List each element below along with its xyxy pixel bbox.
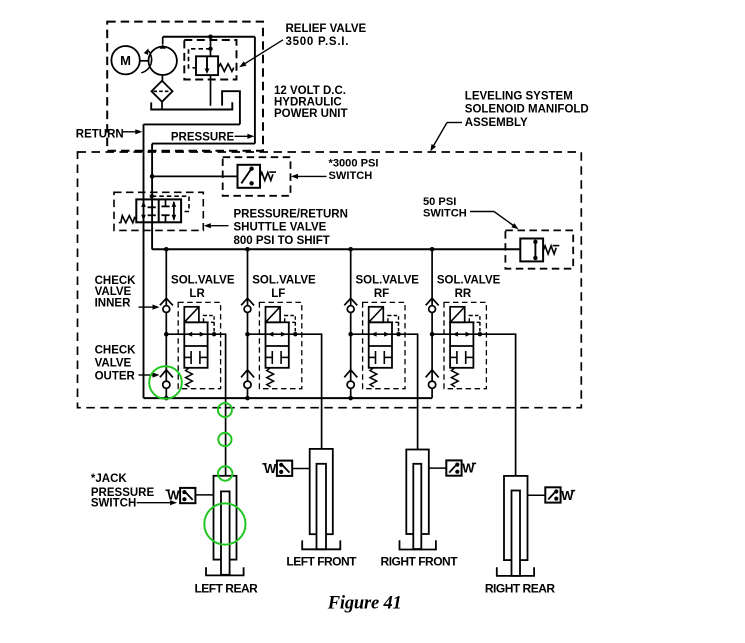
check valve outer RF	[344, 370, 357, 389]
shuttle valve body	[136, 199, 181, 222]
svg-text:12 VOLT D.C.: 12 VOLT D.C.	[274, 85, 346, 97]
cylinder RIGHT REAR	[497, 476, 534, 576]
valve RF flow arrows	[371, 332, 390, 337]
valve LF spring	[267, 368, 274, 387]
relief valve spring	[218, 64, 234, 72]
svg-text:M: M	[120, 53, 131, 68]
solenoid valve RR dashed enclosure	[444, 302, 486, 388]
label 12 VOLT D.C. HYDRAULIC POWER UNIT	[274, 85, 347, 120]
svg-text:SOL.VALVE: SOL.VALVE	[437, 274, 501, 286]
wire feed down LR	[165, 249, 167, 398]
valve LR spring	[186, 368, 193, 387]
leader shuttle valve	[204, 223, 229, 228]
node LR valve inlet	[164, 332, 169, 337]
svg-text:RIGHT REAR: RIGHT REAR	[485, 582, 556, 596]
pilot box RF	[388, 316, 401, 337]
wire pump to filter	[161, 75, 163, 81]
leveling system manifold dashed enclosure	[78, 152, 582, 408]
label SOL.VALVE LR	[171, 274, 235, 300]
node return rail LR	[164, 396, 169, 401]
valve RR flow arrows	[453, 332, 472, 337]
svg-text:LEFT REAR: LEFT REAR	[194, 581, 258, 595]
leader manifold label	[430, 123, 462, 152]
3000 psi switch dashed enclosure	[223, 157, 291, 196]
relief valve body	[196, 56, 218, 75]
wire feed down RF	[350, 249, 352, 398]
leader check valve outer	[139, 372, 160, 377]
solenoid valve LR dashed enclosure	[178, 302, 220, 388]
3000 psi switch spring	[260, 172, 273, 180]
pilot box RR	[469, 316, 482, 337]
wire LR valve to cylinder	[166, 334, 225, 476]
svg-text:LR: LR	[189, 288, 205, 300]
label CHECK VALVE OUTER	[95, 344, 137, 382]
svg-text:POWER UNIT: POWER UNIT	[274, 108, 347, 120]
cylinder RIGHT FRONT	[400, 450, 436, 550]
motor M	[111, 46, 139, 74]
svg-text:RIGHT FRONT: RIGHT FRONT	[381, 554, 459, 568]
check valve outer RR	[426, 370, 439, 389]
hydraulic power unit dashed enclosure	[107, 22, 263, 151]
cylinder LEFT FRONT	[302, 449, 340, 549]
wire relief drain to tank	[210, 37, 212, 57]
valve LF flow arrows	[268, 332, 287, 337]
jack pressure switch at RIGHT REAR	[528, 487, 576, 503]
svg-text:RETURN: RETURN	[76, 128, 124, 140]
valve RR blocked ports	[450, 351, 473, 364]
svg-text:LEFT FRONT: LEFT FRONT	[286, 555, 357, 569]
wire RR valve to cylinder	[432, 334, 515, 476]
relief valve RV dashed enclosure	[184, 40, 236, 80]
svg-text:SOL.VALVE: SOL.VALVE	[171, 274, 235, 286]
suction filter	[152, 81, 173, 102]
label *JACK PRESSURE SWITCH	[91, 473, 155, 510]
valve body LF	[266, 322, 289, 368]
solenoid valve RF dashed enclosure	[363, 302, 405, 388]
svg-text:SWITCH: SWITCH	[91, 498, 136, 510]
shuttle valve left cell flow arrows	[141, 201, 156, 221]
label RELIEF VALVE 3500 P.S.I.	[286, 23, 367, 48]
svg-text:RR: RR	[455, 288, 472, 300]
label 50 PSI SWITCH	[423, 196, 467, 220]
jack pressure switch at LEFT REAR	[166, 488, 214, 504]
check valve outer LF	[241, 370, 254, 389]
shuttle valve spring	[119, 216, 137, 223]
svg-text:VALVE: VALVE	[95, 286, 132, 298]
leader pressure arrow	[235, 134, 255, 139]
valve LF blocked ports	[266, 351, 289, 364]
annotation green circle cylinder body	[204, 503, 245, 544]
node RR valve inlet	[430, 332, 435, 337]
svg-text:*JACK: *JACK	[91, 473, 127, 485]
solenoid valve LF dashed enclosure	[259, 302, 301, 388]
wire pressure horizontal	[152, 143, 255, 145]
wire pressure down right side	[254, 37, 256, 144]
solenoid coil LF	[266, 307, 281, 323]
valve LR flow arrows	[187, 332, 206, 337]
return dip pipe into tank	[222, 91, 240, 124]
shuttle valve right cell flow arrows	[161, 199, 176, 222]
wire motor to pump	[140, 60, 149, 62]
relief valve pilot line	[189, 47, 213, 68]
wire return drop into manifold	[143, 124, 145, 398]
leader jack pressure switch	[137, 500, 177, 505]
svg-text:HYDRAULIC: HYDRAULIC	[274, 97, 342, 109]
leader 50 psi switch	[470, 212, 519, 230]
pump	[149, 44, 177, 75]
reservoir tank	[151, 102, 232, 109]
check valve inner RR	[426, 298, 439, 312]
svg-text:LEVELING SYSTEM: LEVELING SYSTEM	[465, 90, 573, 102]
node return rail LF	[245, 396, 250, 401]
valve RF spring	[370, 368, 377, 387]
svg-text:LF: LF	[271, 288, 285, 300]
svg-text:50 PSI: 50 PSI	[423, 196, 456, 208]
annotation green circle LR outer check valve	[149, 366, 182, 399]
svg-text:800 PSI TO SHIFT: 800 PSI TO SHIFT	[234, 235, 330, 247]
solenoid coil RF	[369, 307, 384, 323]
50 psi switch dashed enclosure	[505, 230, 573, 268]
node pressure/3000psi tee	[150, 174, 155, 179]
motor rotation arrow	[141, 48, 151, 73]
leader check valve inner	[139, 305, 160, 310]
node pressure rail tee RR	[430, 247, 435, 252]
svg-text:CHECK: CHECK	[95, 275, 137, 287]
svg-text:SWITCH: SWITCH	[423, 208, 467, 220]
pilot box LF	[285, 316, 298, 337]
valve body LR	[184, 322, 207, 368]
leader relief valve	[239, 40, 283, 67]
valve RF blocked ports	[369, 351, 392, 364]
wire pump outlet up	[162, 37, 164, 45]
svg-text:SOL.VALVE: SOL.VALVE	[252, 274, 316, 286]
check valve inner RF	[344, 298, 357, 312]
wire pressure rail	[152, 248, 520, 250]
pilot box LR	[204, 316, 217, 337]
wire LF valve to cylinder	[248, 334, 322, 449]
svg-text:SOLENOID MANIFOLD: SOLENOID MANIFOLD	[465, 104, 589, 116]
node relief tee	[208, 35, 213, 40]
node RF valve inlet	[348, 332, 353, 337]
50 psi pressure switch PS2	[520, 239, 543, 262]
shuttle valve pilot line	[150, 194, 189, 212]
wire return rail	[144, 397, 433, 399]
wire RF valve to cylinder	[351, 334, 418, 449]
label *3000 PSI SWITCH	[329, 157, 379, 182]
shuttle valve dashed enclosure	[114, 192, 203, 230]
label SOL.VALVE LF	[252, 274, 316, 300]
svg-text:Figure 41: Figure 41	[327, 594, 402, 614]
check valve inner LR	[160, 298, 173, 312]
svg-text:VALVE: VALVE	[95, 357, 132, 369]
wire pressure top run	[163, 36, 255, 38]
label SOL.VALVE RF	[355, 274, 419, 300]
leader 3000 psi switch	[291, 174, 327, 179]
svg-text:3500 P.S.I.: 3500 P.S.I.	[286, 36, 350, 48]
valve body RR	[450, 322, 473, 368]
svg-text:SWITCH: SWITCH	[329, 170, 373, 182]
3000 psi pressure switch PS1	[238, 165, 261, 188]
solenoid coil RR	[450, 307, 465, 323]
wire to 3000 psi switch	[152, 175, 237, 177]
svg-text:PRESSURE/RETURN: PRESSURE/RETURN	[234, 208, 348, 220]
node return rail RF	[348, 396, 353, 401]
solenoid coil LR	[184, 307, 199, 323]
cylinder LEFT REAR	[206, 476, 244, 576]
check valve outer LR	[160, 370, 173, 389]
check valve inner LF	[241, 298, 254, 312]
label CHECK VALVE INNER	[95, 275, 137, 310]
svg-text:OUTER: OUTER	[95, 371, 136, 383]
annotation green circle cylinder port	[218, 466, 232, 480]
svg-text:RF: RF	[374, 288, 389, 300]
wire return horizontal	[144, 123, 240, 125]
label LEVELING SYSTEM SOLENOID MANIFOLD ASSEMBLY	[465, 90, 589, 129]
valve LR blocked ports	[184, 351, 207, 364]
jack pressure switch at RIGHT FRONT	[429, 460, 476, 475]
svg-text:*3000 PSI: *3000 PSI	[329, 157, 379, 169]
valve body RF	[369, 322, 392, 368]
node pressure rail tee LR	[164, 247, 169, 252]
valve RR spring	[451, 368, 458, 387]
jack pressure switch at LEFT FRONT	[262, 461, 309, 477]
annotation green circle mid line	[218, 433, 231, 446]
svg-text:RELIEF VALVE: RELIEF VALVE	[286, 23, 367, 35]
svg-text:SOL.VALVE: SOL.VALVE	[355, 274, 419, 286]
svg-text:PRESSURE: PRESSURE	[171, 132, 235, 144]
wire pressure drop into manifold	[151, 144, 153, 250]
svg-text:INNER: INNER	[95, 297, 131, 309]
label PRESSURE/RETURN SHUTTLE VALVE 800 PSI TO SHIFT	[234, 208, 348, 247]
svg-text:ASSEMBLY: ASSEMBLY	[465, 117, 528, 129]
wire feed down LF	[247, 249, 249, 398]
leader return arrow	[122, 129, 143, 134]
annotation green circle manifold exit	[218, 403, 232, 417]
node pressure rail tee RF	[348, 247, 353, 252]
node LF valve inlet	[245, 332, 250, 337]
svg-text:SHUTTLE VALVE: SHUTTLE VALVE	[234, 222, 327, 234]
label SOL.VALVE RR	[437, 274, 501, 300]
wire feed down RR	[431, 249, 433, 398]
50 psi switch spring	[543, 246, 556, 254]
svg-text:CHECK: CHECK	[95, 344, 137, 356]
node pressure rail tee LF	[245, 247, 250, 252]
wire filter to tank	[161, 102, 163, 110]
